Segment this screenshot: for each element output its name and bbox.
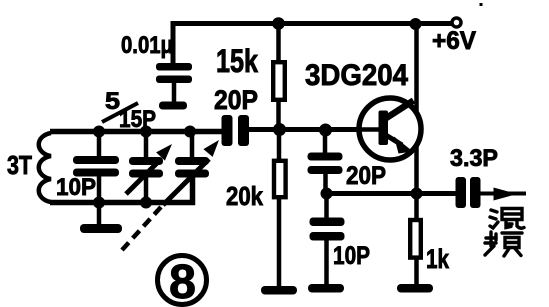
node dot tank-top 10P	[93, 126, 105, 138]
svg-text:1k: 1k	[426, 244, 450, 274]
wire emitter node	[327, 191, 457, 196]
terminal +6V	[452, 18, 461, 27]
svg-text:5: 5	[105, 88, 120, 115]
svg-text:15P: 15P	[119, 106, 156, 133]
figure number 8	[158, 256, 207, 307]
variable capacitor C1 5/15P	[126, 132, 172, 203]
capacitor 20P feedback	[308, 130, 343, 194]
svg-text:20k: 20k	[226, 181, 263, 211]
node dot base/20P	[319, 124, 332, 137]
svg-text:20P: 20P	[214, 85, 258, 115]
node dot rail/collector	[410, 18, 422, 30]
node dot tank-top C1	[140, 126, 152, 138]
ground 1k	[397, 284, 433, 293]
svg-text:10P: 10P	[333, 242, 370, 270]
svg-text:10P: 10P	[56, 174, 96, 201]
node dot emitter/20P-10P	[321, 188, 333, 200]
node dot tank-top C2	[184, 126, 196, 138]
svg-text:0.01μ: 0.01μ	[121, 32, 173, 59]
wire collector/emitter vertical	[414, 24, 419, 194]
label pin (mixer char 2)	[485, 232, 522, 256]
resistor 1k	[410, 194, 421, 286]
node dot emitter/1k	[411, 188, 423, 200]
transistor Q1 3DG204	[352, 98, 421, 160]
variable capacitor C2	[163, 132, 219, 206]
ground 10P bypass	[308, 284, 344, 293]
wire drop from rail to 0.01u cap	[171, 21, 176, 64]
node dot base/15k-20k	[273, 123, 286, 136]
label 5/15P	[102, 88, 156, 133]
node dot rail/15k	[272, 17, 285, 30]
wire tank bottom	[50, 176, 193, 203]
svg-text:+6V: +6V	[432, 27, 476, 55]
svg-text:8: 8	[169, 256, 196, 307]
wire top supply rail	[173, 21, 452, 26]
capacitor 20P coupling	[222, 115, 250, 146]
capacitor 3.3P	[456, 177, 481, 208]
node dot tank-bottom 10P	[93, 197, 105, 209]
node dot tank-bottom C1	[140, 197, 152, 209]
ground for 0.01u	[159, 102, 187, 110]
wire output with arrow	[480, 188, 526, 201]
wire tank top	[50, 129, 222, 135]
scan speck	[480, 3, 483, 6]
ground tank	[80, 203, 122, 234]
svg-text:15k: 15k	[216, 43, 258, 79]
capacitor 10P bypass	[310, 194, 345, 286]
gang dashed link	[122, 207, 161, 250]
wire base	[249, 127, 381, 132]
inductor 3T coil	[39, 133, 51, 202]
ground 20k	[261, 286, 297, 295]
svg-text:3T: 3T	[7, 150, 32, 180]
svg-text:20P: 20P	[346, 162, 386, 190]
label hun (mixer char 1)	[490, 209, 524, 229]
capacitor 0.01u	[156, 63, 192, 102]
resistor 20k	[274, 130, 286, 288]
svg-text:3DG204: 3DG204	[305, 59, 408, 92]
resistor 15k	[273, 24, 285, 132]
capacitor 10P tank	[73, 132, 119, 203]
svg-text:3.3P: 3.3P	[450, 145, 498, 172]
